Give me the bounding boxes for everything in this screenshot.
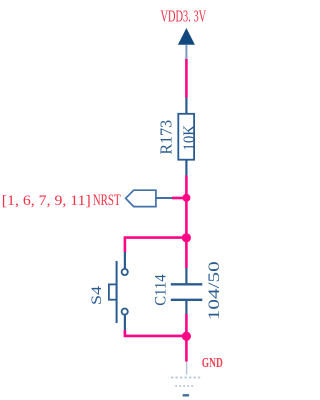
- port NRST: [126, 190, 156, 206]
- wire upper branch to S4: [125, 238, 186, 252]
- switch S4 button: [109, 284, 117, 299]
- junction node upper branch: [182, 233, 191, 242]
- switch S4 bottom contact: [122, 309, 128, 315]
- wire port to net: [172, 197, 186, 200]
- wire R173 to C114 (main vertical net): [185, 176, 188, 269]
- switch S4 bottom lead: [124, 315, 126, 330]
- svg-text:VDD3. 3V: VDD3. 3V: [161, 7, 207, 26]
- junction node NRST: [182, 194, 190, 202]
- svg-text:R173: R173: [156, 120, 175, 155]
- resistor R173 top lead: [185, 98, 187, 114]
- switch S4 actuator bar: [116, 261, 118, 323]
- svg-text:GND: GND: [202, 355, 223, 370]
- svg-text:10K: 10K: [181, 125, 198, 151]
- wire VDD to R173: [185, 59, 188, 98]
- switch S4 top contact: [122, 269, 128, 275]
- capacitor C114 bottom lead: [185, 300, 187, 314]
- resistor R173 bottom lead: [185, 160, 187, 176]
- resistor R173 body: [178, 114, 194, 160]
- switch S4 top lead: [124, 252, 126, 269]
- capacitor C114 bottom plate: [171, 299, 203, 301]
- svg-text:[1, 6, 7, 9, 11]: [1, 6, 7, 9, 11]: [2, 193, 91, 209]
- ground bar 3: [183, 394, 190, 396]
- svg-text:NRST: NRST: [93, 192, 121, 209]
- svg-text:104/50: 104/50: [206, 261, 223, 320]
- capacitor C114 top lead: [185, 268, 187, 284]
- svg-text:C114: C114: [153, 274, 170, 306]
- power symbol VDD (bar/arrow): [178, 28, 195, 45]
- wire C114 to lower branch and GND: [185, 314, 188, 362]
- svg-text:S4: S4: [89, 285, 105, 305]
- port NRST pin: [156, 197, 172, 199]
- ground bar 2: [175, 385, 194, 387]
- ground bar 1: [171, 377, 200, 379]
- capacitor C114 top plate: [171, 283, 203, 285]
- junction node lower branch: [182, 332, 191, 341]
- power symbol pin: [185, 45, 187, 60]
- ground stub: [186, 362, 188, 375]
- wire lower branch from S4: [125, 330, 186, 336]
